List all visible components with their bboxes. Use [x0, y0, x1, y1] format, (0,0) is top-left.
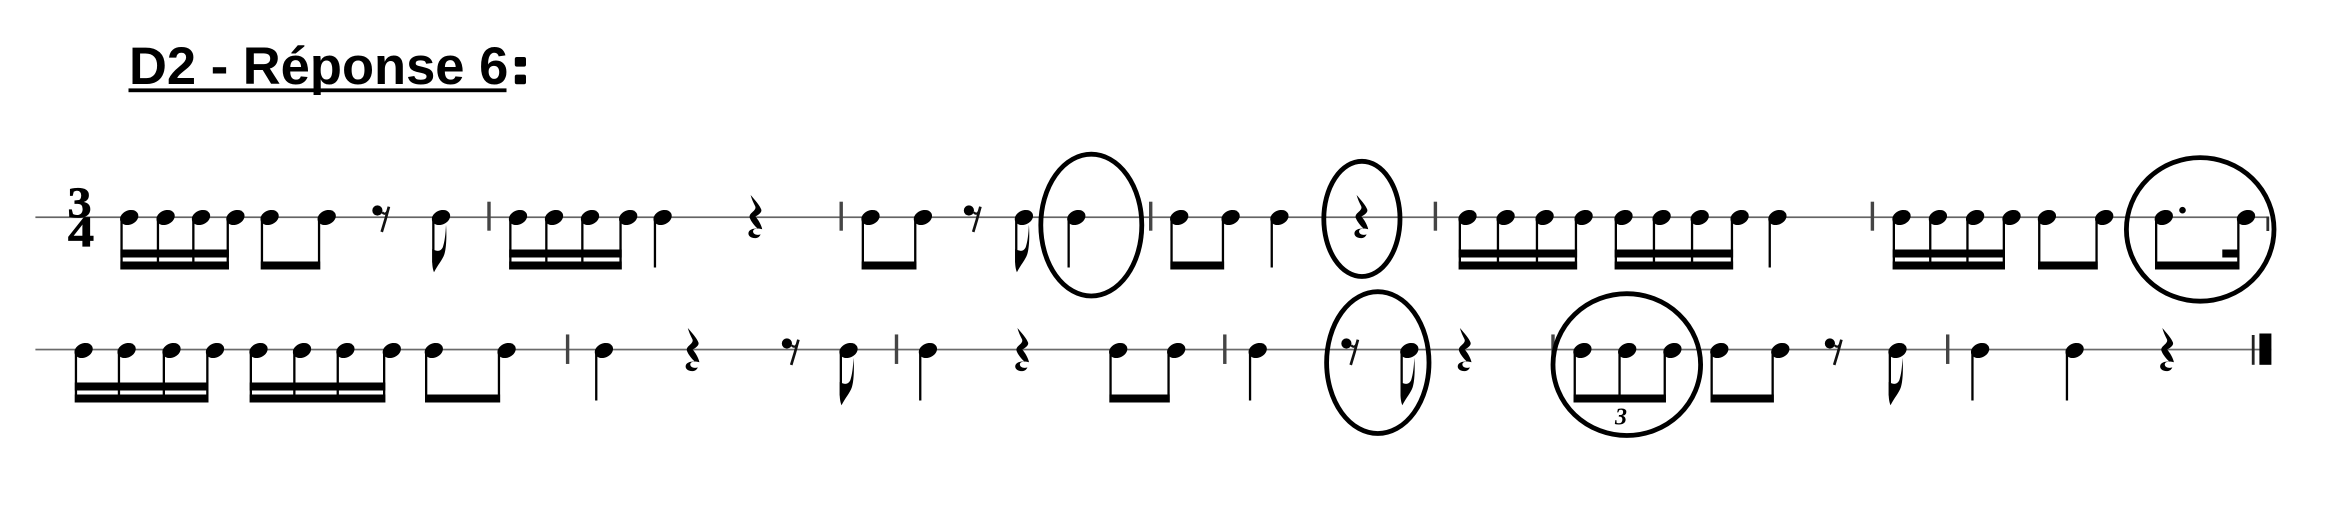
eighth note m3	[1012, 207, 1035, 272]
quarter note m2	[651, 207, 674, 267]
eighth note m1	[429, 207, 452, 272]
eighth note m8	[837, 340, 860, 405]
svg-text:4: 4	[68, 208, 94, 256]
sixteenth group m7 beat2	[247, 340, 403, 402]
barline m8-m9	[895, 334, 898, 364]
barline m7-m8	[566, 334, 569, 364]
circle around eighth rest and note m10	[1327, 292, 1429, 434]
sixteenth group m5 beat2	[1612, 207, 1751, 269]
circled eighth rest m10	[1341, 338, 1358, 365]
circled dotted eighth and sixteenth m6	[2152, 207, 2257, 270]
eighth pair m9 beat3	[1107, 340, 1188, 402]
quarter rest m10	[1458, 328, 1472, 371]
title colon	[515, 57, 526, 67]
barline m9-m10	[1223, 334, 1226, 364]
quarter note m5	[1766, 207, 1789, 267]
sixteenth group m6 beat1	[1890, 207, 2023, 269]
barline m1-m2	[487, 202, 490, 231]
eighth pair m11 beat2	[1708, 340, 1792, 402]
circled eighth note triplet m11	[1571, 340, 1684, 402]
final barline thin	[2252, 335, 2255, 365]
eighth pair m7 beat3	[422, 340, 518, 402]
sixteenth group m7 beat1	[72, 340, 227, 402]
circled eighth note m10	[1398, 340, 1421, 405]
circled quarter rest m4	[1354, 195, 1368, 238]
circle around quarter rest m4	[1324, 161, 1400, 276]
eighth note m11	[1886, 340, 1909, 405]
sixteenth group m5 beat1	[1456, 207, 1595, 269]
quarter rest m8	[686, 328, 700, 371]
sixteenth group m2 beat1	[506, 207, 639, 269]
quarter rest m9	[1015, 328, 1029, 371]
sixteenth group m1 beat1	[118, 207, 247, 269]
barline m11-m12	[1946, 334, 1949, 364]
staff line 2	[35, 349, 2271, 351]
eighth rest m3	[964, 205, 981, 232]
eighth pair m1 beat2	[258, 207, 338, 269]
eighth pair m4 beat1	[1168, 207, 1243, 269]
eighth rest m8	[782, 338, 799, 365]
short end barline line 1	[2266, 217, 2269, 232]
eighth rest m1	[372, 205, 389, 232]
quarter note m9	[916, 340, 939, 400]
quarter rest m12	[2160, 328, 2174, 371]
circle around triplet m11	[1553, 294, 1701, 436]
circle around quarter note m3	[1041, 154, 1142, 296]
quarter note m4	[1268, 207, 1291, 267]
barline m3-m4	[1149, 202, 1152, 231]
quarter note m10	[1246, 340, 1269, 400]
quarter note m12 beat1	[1969, 340, 1992, 400]
barline m5-m6	[1871, 202, 1874, 231]
barline m2-m3	[840, 202, 843, 231]
svg-text:D2 - Réponse 6: D2 - Réponse 6	[129, 37, 508, 96]
title underline	[129, 88, 507, 92]
eighth pair m6 beat2	[2035, 207, 2115, 269]
staff line 1	[35, 216, 2267, 218]
quarter note m12 beat2	[2063, 340, 2086, 400]
circled quarter note m3	[1065, 207, 1088, 267]
quarter note m8	[592, 340, 615, 400]
quarter rest m2	[748, 195, 762, 238]
eighth rest m11	[1825, 338, 1842, 365]
circle around dotted pair m6	[2126, 158, 2274, 302]
eighth pair m3 beat1	[859, 207, 935, 269]
final barline thick	[2259, 334, 2271, 365]
barline m4-m5	[1434, 202, 1437, 231]
svg-text:3: 3	[1614, 405, 1627, 431]
barline m10-m11	[1551, 334, 1554, 364]
